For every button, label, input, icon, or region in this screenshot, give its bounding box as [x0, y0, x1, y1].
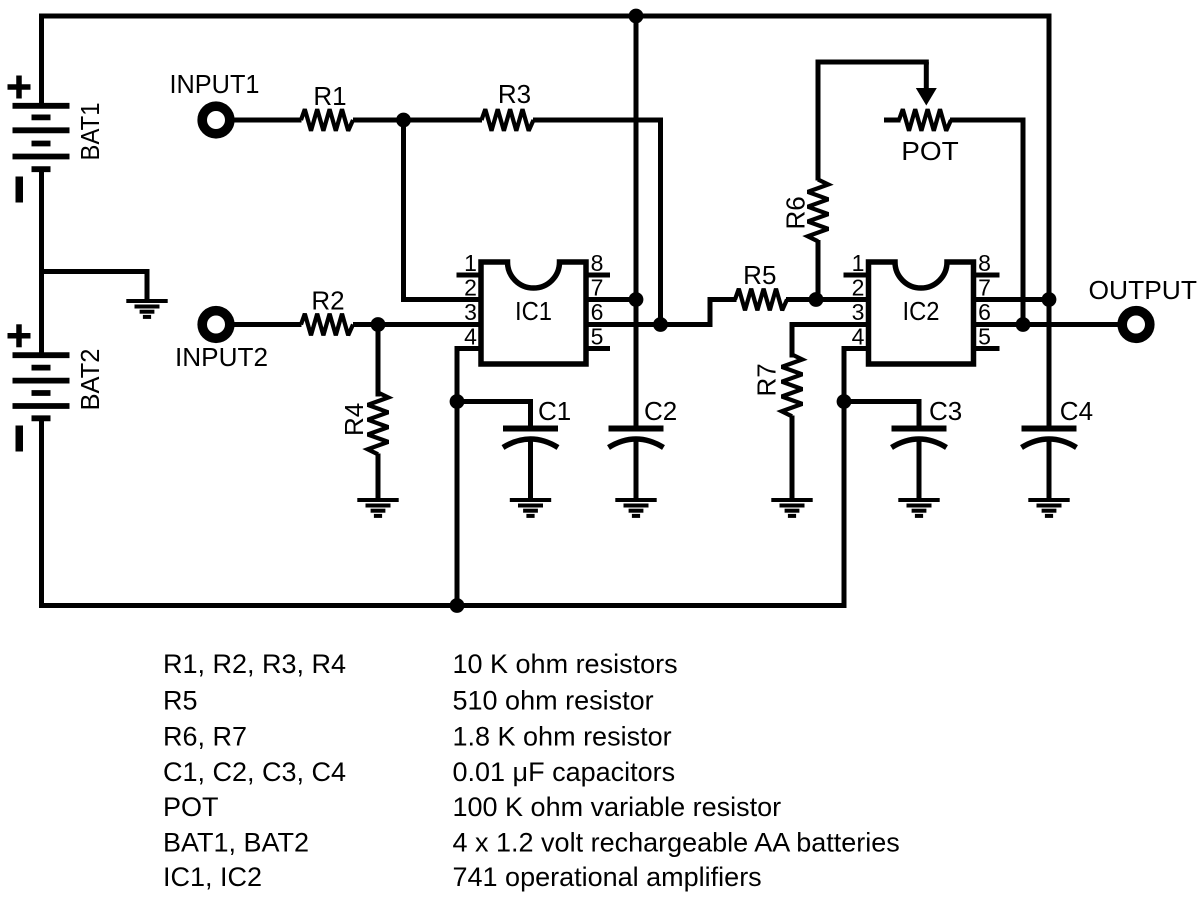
svg-text:OUTPUT: OUTPUT — [1089, 275, 1198, 305]
svg-text:1: 1 — [464, 250, 477, 276]
resistor R6 — [808, 180, 829, 242]
wire: left rail up, top rail, right drop to C4 — [42, 16, 1050, 429]
ground (C2) — [615, 500, 656, 516]
wire: IC1 pin 1 stub — [457, 273, 482, 278]
node IC2 pin4 / C3 — [837, 394, 852, 409]
ground (R4) — [357, 500, 398, 516]
svg-text:R7: R7 — [752, 363, 782, 396]
wire: R6 upper lead over to POT wiper — [818, 62, 929, 181]
wire: IC2 pin 8 stub — [973, 273, 1000, 278]
svg-text:C1, C2, C3, C4: C1, C2, C3, C4 — [163, 757, 346, 787]
node V+ / IC2 pin7 — [1042, 292, 1057, 307]
wire: POT left lead — [884, 118, 901, 123]
svg-text:10 K ohm resistors: 10 K ohm resistors — [453, 649, 678, 679]
node R1-R3 junction — [396, 113, 411, 128]
wire: R4 to ground — [376, 454, 381, 502]
svg-text:741 operational amplifiers: 741 operational amplifiers — [453, 862, 762, 892]
svg-text:6: 6 — [591, 299, 604, 325]
svg-text:IC1, IC2: IC1, IC2 — [163, 862, 262, 892]
svg-text:4: 4 — [464, 324, 477, 350]
svg-text:INPUT2: INPUT2 — [175, 342, 268, 372]
ground (battery mid) — [126, 301, 167, 317]
svg-text:C2: C2 — [644, 396, 677, 426]
battery BAT2 — [8, 324, 106, 451]
svg-text:5: 5 — [978, 324, 991, 350]
capacitor C2 — [609, 396, 678, 501]
svg-text:R4: R4 — [339, 403, 369, 436]
capacitor C4 — [1022, 396, 1094, 501]
resistor R3 — [482, 109, 534, 131]
wire: V+ drop from top rail to IC1 pin 7 and C2 — [634, 14, 639, 429]
wire: R3 out, drop to IC1 pin 6 node — [533, 120, 661, 325]
svg-text:4 x 1.2 volt rechargeable AA b: 4 x 1.2 volt rechargeable AA batteries — [453, 828, 900, 858]
wire: node A drop to IC1 pin 2 — [404, 118, 482, 300]
wire: IC1 pin 7 — [585, 297, 637, 302]
resistor R4 — [368, 393, 389, 455]
wire: C3 tee — [844, 402, 919, 429]
svg-text:IC2: IC2 — [903, 296, 940, 326]
svg-text:POT: POT — [901, 136, 959, 166]
svg-text:5: 5 — [591, 324, 604, 350]
node IC1 pin7 / C2 — [629, 292, 644, 307]
wire: POT right lead down to IC2 pin 6 node — [950, 120, 1023, 325]
terminal INPUT1 — [202, 106, 230, 134]
wire: BAT1 to BAT2 — [39, 169, 44, 355]
svg-text:2: 2 — [464, 275, 477, 301]
wire: R1 to R3 through node — [353, 118, 482, 123]
capacitor C3 — [892, 396, 963, 501]
svg-text:0.01 μF capacitors: 0.01 μF capacitors — [453, 757, 676, 787]
ground (R7) — [771, 500, 812, 516]
wire: R6 lower lead — [816, 240, 821, 301]
pin numbers IC1 — [464, 250, 603, 350]
svg-text:8: 8 — [591, 250, 604, 276]
svg-text:7: 7 — [591, 275, 604, 301]
wire: C1 tee — [457, 402, 531, 429]
op-amp IC1 — [481, 262, 586, 364]
wire: IC2 pin 5 stub — [973, 346, 1000, 351]
svg-text:1.8 K ohm resistor: 1.8 K ohm resistor — [453, 722, 672, 752]
svg-text:C1: C1 — [538, 396, 571, 426]
svg-text:3: 3 — [464, 299, 477, 325]
wire: IC2 pin 2 from node — [816, 297, 869, 302]
svg-text:7: 7 — [978, 275, 991, 301]
resistor R1 — [301, 109, 353, 131]
svg-text:POT: POT — [163, 792, 219, 822]
node top rail / V+ drop — [629, 9, 644, 24]
svg-text:100 K ohm variable resistor: 100 K ohm variable resistor — [453, 792, 782, 822]
legend parts list — [163, 649, 900, 892]
wire: IC1 pin 4 drop to bottom rail — [457, 349, 482, 606]
svg-text:R1, R2, R3, R4: R1, R2, R3, R4 — [163, 649, 346, 679]
node R2-R4 junction — [371, 317, 386, 332]
capacitor C1 — [503, 396, 571, 501]
wire: R7 to ground — [790, 416, 795, 502]
wire: IC2 pin 6 to OUTPUT — [973, 322, 1119, 327]
resistor R2 — [301, 314, 353, 336]
svg-text:R5: R5 — [163, 685, 198, 715]
svg-text:IC1: IC1 — [515, 296, 552, 326]
svg-text:R2: R2 — [311, 286, 344, 316]
svg-text:8: 8 — [978, 250, 991, 276]
ground (C1) — [510, 500, 551, 516]
svg-text:R6: R6 — [781, 196, 811, 229]
svg-text:R3: R3 — [498, 79, 531, 109]
svg-text:R5: R5 — [743, 260, 776, 290]
svg-text:R1: R1 — [313, 81, 346, 111]
wire: INPUT1 to R1 — [228, 118, 302, 123]
wire: IC1 pin 6 out, up to R5 — [585, 300, 737, 325]
svg-text:1: 1 — [852, 250, 865, 276]
wire: battery ground tee — [39, 272, 147, 302]
svg-text:C3: C3 — [929, 396, 962, 426]
wire: IC2 pin 1 stub — [844, 273, 870, 278]
wire: INPUT2 to R2 — [228, 322, 302, 327]
terminal OUTPUT — [1122, 311, 1150, 339]
svg-text:6: 6 — [978, 299, 991, 325]
wire: IC1 pin 8 stub — [585, 273, 611, 278]
node R5/R6/IC2 pin2 — [809, 292, 824, 307]
svg-text:BAT2: BAT2 — [75, 349, 105, 411]
wire: BAT2 down, bottom rail, right end up to IC2 pin 4 — [42, 349, 870, 606]
resistor R7 — [782, 355, 803, 417]
wire: node to R4 — [376, 325, 381, 397]
svg-text:510 ohm resistor: 510 ohm resistor — [453, 685, 654, 715]
node IC1 pin4 / C1 — [450, 394, 465, 409]
node POT / IC2 pin6 — [1016, 317, 1031, 332]
potentiometer POT — [899, 109, 951, 131]
svg-text:C4: C4 — [1060, 396, 1093, 426]
wiper arrow — [924, 62, 929, 92]
node IC1 pin6 / R3 — [653, 317, 668, 332]
wire: R2 to IC1 pin 3 — [353, 322, 482, 327]
svg-text:BAT1, BAT2: BAT1, BAT2 — [163, 828, 309, 858]
wire: R5 to IC2 pin 2 — [786, 297, 869, 302]
wire: IC2 pin 3 and R7 branch — [792, 325, 869, 358]
wire: IC1 pin 5 stub — [585, 346, 611, 351]
wire: IC2 pin 7 to V+ drop — [973, 297, 1049, 302]
ground (C3) — [898, 500, 939, 516]
op-amp IC2 — [869, 262, 974, 364]
svg-text:BAT1: BAT1 — [75, 103, 105, 161]
svg-text:3: 3 — [852, 299, 865, 325]
terminal INPUT2 — [202, 311, 230, 339]
svg-text:R6, R7: R6, R7 — [163, 722, 247, 752]
battery BAT1 — [8, 76, 106, 203]
svg-text:4: 4 — [852, 324, 865, 350]
resistor R5 — [735, 289, 787, 311]
svg-text:INPUT1: INPUT1 — [170, 69, 260, 99]
node bottom rail — [450, 598, 465, 613]
svg-text:2: 2 — [852, 275, 865, 301]
ground (C4) — [1028, 500, 1069, 516]
pin numbers IC2 — [852, 250, 991, 350]
